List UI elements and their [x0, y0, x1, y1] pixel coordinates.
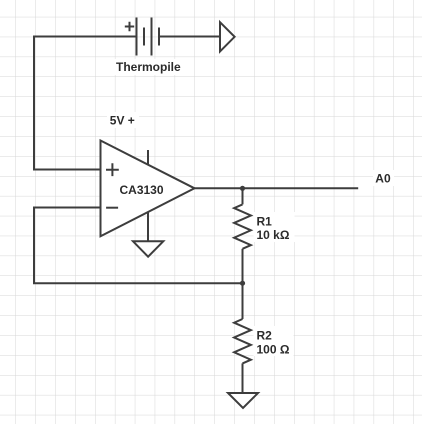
battery short plate 2 [158, 28, 160, 46]
battery short plate 1 [143, 28, 145, 46]
wire battery to arrow [159, 36, 220, 38]
arrow output symbol [220, 22, 235, 51]
label 5V + [107, 112, 139, 128]
svg-text:CA3130: CA3130 [120, 183, 164, 197]
op-amp U1 CA3130 triangle [101, 141, 195, 237]
svg-text:A0: A0 [375, 172, 391, 186]
label A0 [373, 170, 394, 186]
battery BT1 Thermopile plate long left [136, 18, 138, 56]
op-amp plus input symbol [106, 163, 119, 176]
svg-text:10 kΩ: 10 kΩ [257, 228, 290, 242]
battery plus polarity mark [125, 22, 134, 31]
ground symbol under op-amp [133, 241, 163, 256]
battery long plate 2 [151, 18, 153, 56]
svg-text:R1: R1 [257, 214, 273, 228]
junction node at divider [240, 281, 245, 286]
svg-text:5V +: 5V + [110, 114, 135, 128]
op-amp minus input symbol [106, 207, 118, 209]
wire feedback divider node to inverting input [34, 208, 243, 284]
ground symbol under R2 [228, 393, 258, 408]
junction node at op-amp output [240, 186, 245, 191]
wire R2 to ground [242, 363, 244, 393]
svg-text:Thermopile: Thermopile [116, 60, 181, 74]
label R2 100 Ohm [254, 326, 294, 356]
label R1 10 kOhm [254, 212, 295, 242]
svg-text:R2: R2 [257, 329, 273, 343]
resistor R1 zigzag [234, 204, 251, 248]
svg-text:100 Ω: 100 Ω [257, 342, 290, 356]
wire battery to non-inverting input [34, 37, 137, 170]
wire divider node to R2 [242, 283, 244, 319]
label Thermopile [113, 59, 184, 75]
wire output node to R1 [242, 188, 244, 204]
wire R1 to divider node [242, 249, 244, 283]
op-amp ground pin stub [147, 212, 149, 241]
op-amp power pin stub [147, 150, 149, 164]
resistor R2 zigzag [234, 319, 251, 363]
wire op-amp output to A0 [195, 187, 359, 189]
